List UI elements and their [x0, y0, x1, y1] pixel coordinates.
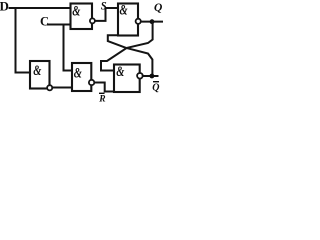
junction dot at Q — [150, 19, 155, 24]
wire U2 input 2 from Q-bar: jog and diagonal — [108, 35, 153, 76]
svg-text:&: & — [72, 3, 80, 19]
wire D branch down to U3 — [16, 8, 31, 73]
wire D-bar from U3 to U4 input 2 — [52, 87, 72, 89]
nand-gate U1 output bubble — [90, 18, 95, 23]
nand-gate U2 & label — [120, 2, 128, 18]
nand-gate U4 body — [72, 63, 91, 91]
wire R-bar from U4 to U5 input 2 — [95, 83, 115, 92]
svg-text:C: C — [40, 15, 49, 29]
svg-text:D: D — [0, 0, 9, 14]
wire cross-coupling from Q down to U5 input 1 — [101, 22, 153, 71]
nand-gate U4 output bubble — [89, 80, 94, 85]
wire S from U1 to U2 input 1 — [95, 8, 118, 21]
nand-gate U3 & label — [33, 62, 41, 78]
svg-text:Q: Q — [152, 82, 159, 93]
wire Q output — [141, 21, 162, 23]
node D input label — [0, 0, 9, 14]
nand-gate U2 body — [118, 4, 138, 36]
nand-gate U5 output bubble — [137, 73, 143, 79]
junction dot at Q-bar — [150, 74, 155, 79]
wire C horizontal to U1 input 2 — [48, 24, 71, 26]
nand-gate U1 & label — [72, 3, 80, 19]
node Q label — [154, 2, 162, 14]
svg-text:Q: Q — [154, 2, 162, 14]
node Q-bar label — [152, 81, 159, 93]
nand-gate U4 & label — [74, 65, 82, 81]
nand-gate U5 & label — [116, 63, 124, 79]
svg-text:R: R — [98, 94, 105, 104]
svg-text:S: S — [101, 0, 107, 13]
svg-text:&: & — [120, 2, 128, 18]
svg-text:&: & — [33, 62, 41, 78]
nand-gate U2 output bubble — [136, 19, 141, 24]
node C input label — [40, 15, 49, 29]
nand-gate U5 body — [114, 65, 140, 93]
nand-gate U3 output bubble — [47, 85, 52, 90]
nand-gate U1 body — [71, 4, 93, 30]
svg-text:&: & — [116, 63, 124, 79]
nand-gate U3 body (D inverter) — [30, 61, 50, 89]
node R-bar label — [98, 93, 105, 105]
wire D horizontal to U1 input — [10, 7, 71, 9]
wire C branch down to U4 input 1 — [64, 25, 73, 71]
node S label — [101, 0, 107, 13]
wire Q-bar output — [143, 75, 158, 77]
svg-text:&: & — [74, 65, 82, 81]
